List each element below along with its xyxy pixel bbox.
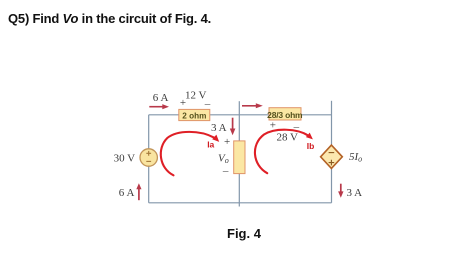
svg-text:+: + (224, 136, 230, 148)
svg-text:28 V: 28 V (277, 131, 299, 143)
svg-text:–: – (204, 98, 211, 110)
svg-text:Ia: Ia (207, 139, 214, 149)
svg-text:–: – (222, 165, 229, 177)
svg-text:2 ohm: 2 ohm (182, 112, 206, 121)
svg-text:3 A: 3 A (211, 122, 227, 134)
svg-text:28/3 ohm: 28/3 ohm (267, 110, 303, 120)
svg-text:30 V: 30 V (114, 153, 136, 165)
svg-text:3 A: 3 A (347, 187, 363, 199)
svg-text:Ib: Ib (307, 141, 315, 151)
svg-text:+: + (180, 97, 186, 109)
svg-text:6 A: 6 A (153, 92, 169, 104)
svg-text:+: + (270, 120, 276, 132)
svg-text:5Io: 5Io (349, 151, 362, 164)
svg-text:6 A: 6 A (119, 187, 135, 199)
svg-text:12 V: 12 V (185, 90, 207, 102)
svg-text:Vo: Vo (218, 152, 229, 165)
svg-text:Fig. 4: Fig. 4 (227, 226, 262, 241)
